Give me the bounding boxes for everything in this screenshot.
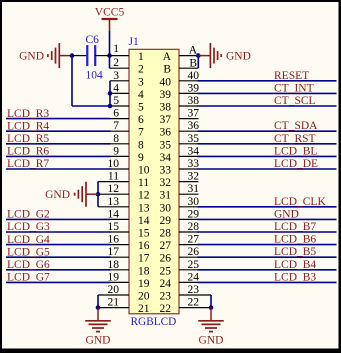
pin 4 stub [110, 92, 129, 94]
wire pin 35 net CT_RST [179, 143, 337, 145]
svg-text:B: B [163, 64, 171, 76]
pin number 28 [188, 221, 200, 233]
svg-text:37: 37 [160, 114, 172, 126]
pin number 12 [108, 183, 120, 195]
svg-text:GND: GND [86, 334, 111, 346]
pin A stub [179, 55, 198, 57]
pin number 11 [108, 171, 119, 183]
svg-text:LCD_G3: LCD_G3 [7, 221, 50, 233]
pin 37 stub [179, 118, 199, 120]
svg-text:34: 34 [188, 145, 200, 157]
svg-text:5: 5 [138, 102, 144, 114]
wire pin 27 net LCD_B6 [179, 244, 337, 246]
svg-text:33: 33 [188, 158, 200, 170]
pin 23 stub [179, 295, 211, 308]
net label CT_INT [274, 82, 314, 94]
wire tie pins 3-4-5 [109, 81, 111, 106]
net label LCD_G5 [7, 246, 50, 258]
pin number 27 [188, 234, 200, 246]
svg-text:17: 17 [138, 253, 150, 265]
net label LCD_R7 [7, 158, 49, 170]
svg-text:29: 29 [160, 215, 172, 227]
net label LCD_G4 [7, 234, 50, 246]
wire tie pins 11-12-13 [97, 182, 99, 207]
wire VCC5 to pin 1 [109, 31, 111, 56]
pin number 17 [108, 246, 120, 258]
svg-text:24: 24 [188, 271, 200, 283]
svg-text:14: 14 [108, 208, 120, 220]
svg-text:11: 11 [138, 177, 149, 189]
wire pin 33 net LCD_DE [179, 168, 337, 170]
net label LCD_B6 [274, 234, 316, 246]
svg-text:27: 27 [188, 234, 200, 246]
pin 12 stub [98, 193, 129, 195]
svg-text:LCD_B4: LCD_B4 [274, 259, 316, 271]
designator J1 [129, 36, 139, 48]
pin 13 stub [98, 206, 129, 208]
pin number 9 [113, 145, 119, 157]
pin number 20 [108, 284, 120, 296]
junction pin 4 [108, 91, 113, 96]
svg-text:3: 3 [138, 76, 144, 88]
svg-text:RESET: RESET [274, 70, 309, 82]
net label LCD_B4 [274, 259, 316, 271]
pin number 37 [188, 108, 200, 120]
svg-text:35: 35 [160, 139, 172, 151]
svg-text:13: 13 [138, 202, 150, 214]
junction ground node [70, 53, 75, 58]
svg-text:24: 24 [160, 278, 172, 290]
pin 11 stub [98, 181, 129, 183]
net label LCD_BL [274, 145, 317, 157]
net label LCD_R5 [7, 133, 49, 145]
svg-text:104: 104 [86, 70, 104, 82]
svg-text:LCD_B6: LCD_B6 [274, 234, 316, 246]
svg-text:7: 7 [113, 120, 119, 132]
svg-text:LCD_R4: LCD_R4 [7, 120, 49, 132]
svg-text:CT_SCL: CT_SCL [274, 95, 316, 107]
wire pin 8 net LCD_R5 [6, 143, 129, 145]
svg-text:17: 17 [108, 246, 120, 258]
svg-text:28: 28 [160, 228, 172, 240]
net label LCD_G7 [7, 272, 50, 284]
ground GND top-left [19, 43, 72, 68]
svg-text:C6: C6 [86, 34, 100, 46]
svg-text:LCD_G7: LCD_G7 [7, 272, 50, 284]
svg-text:LCD_R6: LCD_R6 [7, 146, 49, 158]
wire pin 14 net LCD_G2 [6, 218, 129, 220]
svg-text:CT_SDA: CT_SDA [274, 120, 318, 132]
svg-text:6: 6 [138, 114, 144, 126]
svg-text:30: 30 [160, 202, 172, 214]
svg-text:11: 11 [108, 171, 119, 183]
svg-text:GND: GND [19, 51, 44, 63]
pin number 26 [188, 246, 200, 258]
power VCC5 [95, 7, 125, 32]
ground GND bottom-right [198, 308, 224, 347]
wire pin 6 net LCD_R3 [6, 118, 129, 120]
wire pin 28 net LCD_B7 [179, 231, 337, 233]
wire pin 17 net LCD_G5 [6, 256, 129, 258]
ground GND top-right [198, 43, 251, 68]
svg-text:20: 20 [108, 284, 120, 296]
svg-text:9: 9 [113, 145, 119, 157]
wire pin 26 net LCD_B5 [179, 256, 337, 258]
svg-text:1: 1 [138, 51, 144, 63]
pin number 16 [108, 234, 120, 246]
net label LCD_B5 [274, 246, 316, 258]
pin number 22 [188, 297, 200, 309]
svg-text:35: 35 [188, 133, 200, 145]
svg-text:33: 33 [160, 165, 172, 177]
pin 3 stub [110, 80, 129, 82]
svg-text:LCD_R7: LCD_R7 [7, 158, 49, 170]
designator C6 [86, 34, 100, 46]
pin number 39 [188, 82, 200, 94]
pin number 38 [188, 95, 200, 107]
svg-text:19: 19 [138, 278, 150, 290]
net label LCD_R3 [7, 108, 49, 120]
wire pin 40 net RESET [179, 80, 337, 82]
svg-text:15: 15 [108, 221, 120, 233]
svg-text:LCD_G4: LCD_G4 [7, 234, 50, 246]
svg-text:39: 39 [160, 89, 172, 101]
svg-text:27: 27 [160, 240, 172, 252]
svg-text:8: 8 [113, 133, 119, 145]
svg-text:2: 2 [113, 57, 119, 69]
svg-text:32: 32 [188, 171, 200, 183]
svg-text:40: 40 [160, 76, 172, 88]
svg-text:25: 25 [188, 259, 200, 271]
svg-text:13: 13 [108, 196, 120, 208]
junction pin 12 [96, 192, 101, 197]
svg-text:16: 16 [138, 240, 150, 252]
pin number 3 [113, 70, 119, 82]
svg-text:31: 31 [188, 183, 200, 195]
junction pin A [196, 53, 201, 58]
svg-text:LCD_B7: LCD_B7 [274, 221, 316, 233]
svg-text:40: 40 [188, 70, 200, 82]
wire pin 30 net LCD_CLK [179, 206, 337, 208]
pin 1 stub [110, 55, 130, 57]
net label LCD_B3 [274, 271, 316, 283]
part type RGBLCD [131, 316, 177, 328]
pin name A [189, 44, 198, 56]
wire pin 9 net LCD_R6 [6, 155, 129, 157]
svg-text:21: 21 [138, 303, 150, 315]
svg-text:30: 30 [188, 196, 200, 208]
pin number 32 [188, 171, 200, 183]
svg-text:15: 15 [138, 228, 150, 240]
wire pin 38 net CT_SCL [179, 105, 337, 107]
svg-text:LCD_G5: LCD_G5 [7, 246, 50, 258]
net label GND [274, 208, 299, 220]
svg-text:21: 21 [108, 297, 120, 309]
pin number 36 [188, 120, 200, 132]
svg-text:GND: GND [45, 189, 70, 201]
svg-text:LCD_G2: LCD_G2 [7, 209, 50, 221]
svg-text:GND: GND [199, 334, 224, 346]
wire pin 25 net LCD_B4 [179, 269, 337, 271]
svg-text:GND: GND [274, 208, 299, 220]
pin B stub [179, 56, 198, 69]
svg-text:7: 7 [138, 127, 144, 139]
svg-text:LCD_R5: LCD_R5 [7, 133, 49, 145]
svg-text:19: 19 [108, 271, 120, 283]
svg-text:16: 16 [108, 234, 120, 246]
svg-text:LCD_G6: LCD_G6 [7, 259, 50, 271]
svg-text:12: 12 [138, 190, 150, 202]
svg-text:23: 23 [160, 291, 172, 303]
wire pin 15 net LCD_G3 [6, 231, 129, 233]
svg-text:CT_INT: CT_INT [274, 82, 314, 94]
J1 inside pin numbers left column [138, 51, 150, 315]
svg-text:B: B [189, 58, 197, 70]
junction VCC node [107, 53, 112, 58]
svg-text:26: 26 [188, 246, 200, 258]
pin number 19 [108, 271, 120, 283]
net label LCD_G3 [7, 221, 50, 233]
svg-text:LCD_CLK: LCD_CLK [274, 196, 326, 208]
wire pin 24 net LCD_B3 [179, 281, 337, 283]
pin number 13 [108, 196, 120, 208]
net label CT_SDA [274, 120, 318, 132]
pin 21 stub [98, 307, 129, 309]
net label RESET [274, 70, 309, 82]
pin number 6 [113, 108, 119, 120]
svg-text:4: 4 [138, 89, 144, 101]
svg-text:31: 31 [160, 190, 172, 202]
svg-text:6: 6 [113, 108, 119, 120]
pin number 23 [188, 284, 200, 296]
svg-text:4: 4 [113, 82, 119, 94]
wire pin 29 net GND [179, 218, 337, 220]
svg-text:38: 38 [188, 95, 200, 107]
svg-text:28: 28 [188, 221, 200, 233]
svg-text:39: 39 [188, 82, 200, 94]
wire pin 19 net LCD_G7 [6, 281, 129, 283]
svg-text:A: A [163, 51, 172, 63]
wire pin 34 net LCD_BL [179, 155, 337, 157]
pin number 2 [113, 57, 119, 69]
net label LCD_CLK [274, 196, 326, 208]
pin number 14 [108, 208, 120, 220]
svg-text:23: 23 [188, 284, 200, 296]
ground GND bottom-left [85, 308, 111, 347]
wire pin 36 net CT_SDA [179, 130, 337, 132]
net label LCD_R4 [7, 120, 49, 132]
junction pins 22-23 [209, 305, 214, 310]
net label LCD_B7 [274, 221, 316, 233]
wire pin 10 net LCD_R7 [6, 168, 129, 170]
svg-text:3: 3 [113, 70, 119, 82]
pin number 4 [113, 82, 119, 94]
net label LCD_G2 [7, 209, 50, 221]
net label LCD_R6 [7, 146, 49, 158]
pin number 24 [188, 271, 200, 283]
svg-text:36: 36 [188, 120, 200, 132]
pin number 30 [188, 196, 200, 208]
pin number 29 [188, 208, 200, 220]
svg-text:5: 5 [113, 95, 119, 107]
pin number 33 [188, 158, 200, 170]
wire pin5 to ground rail [72, 56, 110, 106]
pin number 34 [188, 145, 200, 157]
wire pin 16 net LCD_G4 [6, 244, 129, 246]
svg-text:29: 29 [188, 208, 200, 220]
svg-text:8: 8 [138, 139, 144, 151]
svg-text:CT_RST: CT_RST [274, 133, 316, 145]
junction pins 20-21 [96, 305, 101, 310]
J1 inside pin numbers right column [160, 51, 172, 315]
svg-text:VCC5: VCC5 [95, 7, 125, 19]
svg-text:22: 22 [160, 303, 172, 315]
svg-text:10: 10 [108, 158, 120, 170]
ground GND mid-left [45, 182, 98, 207]
pin number 7 [113, 120, 119, 132]
net label CT_RST [274, 133, 316, 145]
pin 2 stub [110, 56, 130, 69]
svg-text:2: 2 [138, 64, 144, 76]
svg-text:18: 18 [108, 259, 120, 271]
svg-text:LCD_B5: LCD_B5 [274, 246, 316, 258]
pin 20 stub [98, 295, 129, 308]
pin number 18 [108, 259, 120, 271]
pin number 31 [188, 183, 200, 195]
pin 22 stub [179, 307, 211, 309]
svg-text:LCD_BL: LCD_BL [274, 145, 317, 157]
net label LCD_G6 [7, 259, 50, 271]
pin number 35 [188, 133, 200, 145]
svg-text:LCD_R3: LCD_R3 [7, 108, 49, 120]
pin number 10 [108, 158, 120, 170]
pin number 21 [108, 297, 120, 309]
svg-text:J1: J1 [129, 36, 139, 48]
svg-text:9: 9 [138, 152, 144, 164]
wire pin 18 net LCD_G6 [6, 269, 129, 271]
pin number 40 [188, 70, 200, 82]
svg-text:10: 10 [138, 165, 150, 177]
svg-text:26: 26 [160, 253, 172, 265]
pin 31 stub [179, 193, 199, 195]
pin number 5 [113, 95, 119, 107]
svg-text:14: 14 [138, 215, 150, 227]
junction pin 5 [108, 104, 113, 109]
pin number 15 [108, 221, 120, 233]
svg-text:LCD_B3: LCD_B3 [274, 271, 316, 283]
pin number 8 [113, 133, 119, 145]
pin 5 stub [110, 105, 129, 107]
pin name B [189, 58, 197, 70]
connector J1 body [129, 49, 179, 314]
svg-text:37: 37 [188, 108, 200, 120]
svg-text:12: 12 [108, 183, 120, 195]
net label LCD_DE [274, 158, 318, 170]
svg-text:25: 25 [160, 265, 172, 277]
svg-text:18: 18 [138, 265, 150, 277]
wire pin 7 net LCD_R4 [6, 130, 129, 132]
capacitor C6 [72, 45, 110, 66]
pin number 1 [113, 43, 119, 55]
wire pin 39 net CT_INT [179, 92, 337, 94]
svg-text:38: 38 [160, 102, 172, 114]
net label CT_SCL [274, 95, 316, 107]
svg-text:32: 32 [160, 177, 172, 189]
value 104 [86, 70, 104, 82]
pin number 25 [188, 259, 200, 271]
svg-text:20: 20 [138, 291, 150, 303]
svg-text:LCD_DE: LCD_DE [274, 158, 318, 170]
svg-text:36: 36 [160, 127, 172, 139]
svg-text:1: 1 [113, 43, 119, 55]
svg-text:22: 22 [188, 297, 200, 309]
pin 32 stub [179, 181, 199, 183]
svg-text:34: 34 [160, 152, 172, 164]
svg-text:RGBLCD: RGBLCD [131, 316, 177, 328]
svg-text:GND: GND [226, 51, 251, 63]
